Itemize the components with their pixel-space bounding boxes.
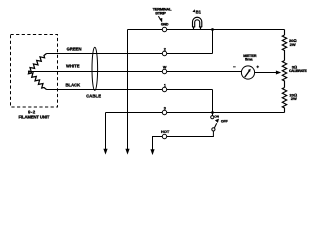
resistor R1 20ohm 2W bbox=[282, 30, 286, 61]
svg-text:ON: ON bbox=[214, 115, 219, 119]
lamp label B1 bbox=[192, 9, 195, 12]
node filament vertex bbox=[28, 70, 30, 72]
svg-text:2W: 2W bbox=[291, 96, 297, 101]
filament unit dashed enclosure bbox=[11, 35, 58, 108]
pot wiper arrowhead bbox=[276, 71, 281, 75]
wire lamp junction to GREEN row bbox=[212, 30, 214, 54]
svg-text:STRIP: STRIP bbox=[155, 10, 166, 15]
svg-text:3: 3 bbox=[164, 106, 166, 110]
resistor R3 20ohm 2W bbox=[282, 88, 286, 113]
arrow down at HOT drop bbox=[150, 149, 154, 155]
svg-text:B1: B1 bbox=[196, 9, 202, 14]
svg-text:GREEN: GREEN bbox=[67, 47, 82, 52]
wire row E (terminal 3 to resistor chain) bbox=[106, 112, 285, 114]
lamp B1 bbox=[192, 17, 202, 29]
switch arm with arrowhead bbox=[214, 123, 216, 128]
svg-text:2: 2 bbox=[164, 47, 166, 51]
svg-text:OFF: OFF bbox=[221, 119, 228, 123]
switch S1 pivot contact bbox=[212, 128, 215, 131]
svg-text:WHITE: WHITE bbox=[66, 64, 80, 69]
svg-text:1: 1 bbox=[164, 83, 166, 87]
potentiometer R2 3ohm CALIBRATE bbox=[282, 61, 286, 88]
arrow down at GND drop bbox=[125, 149, 129, 155]
svg-text:−: − bbox=[233, 64, 236, 69]
wire WHITE row bbox=[29, 71, 242, 73]
wire BLACK row bbox=[47, 89, 213, 91]
junction dot at lamp bbox=[211, 28, 214, 31]
svg-text:BLACK: BLACK bbox=[66, 83, 81, 88]
svg-text:+: + bbox=[256, 64, 259, 69]
filament element upper (zigzag) bbox=[29, 54, 47, 73]
svg-text:CABLE: CABLE bbox=[86, 93, 101, 98]
svg-text:5ma: 5ma bbox=[245, 57, 253, 62]
wire row E left drop bbox=[105, 113, 107, 150]
wire meter plus to pot wiper bbox=[255, 72, 277, 74]
meter M1 bbox=[241, 66, 254, 79]
svg-text:FILAMENT UNIT: FILAMENT UNIT bbox=[19, 114, 50, 119]
svg-text:CALIBRATE: CALIBRATE bbox=[289, 69, 307, 73]
svg-text:2W: 2W bbox=[290, 42, 296, 47]
svg-text:W: W bbox=[163, 65, 167, 69]
terminal strip leader arrow bbox=[158, 16, 160, 19]
wire HOT to left arrow bbox=[153, 137, 163, 150]
cable oval bbox=[92, 47, 98, 90]
wire BLACK row corner down to row E and switch bbox=[212, 90, 214, 116]
junction dot row E bbox=[211, 111, 214, 114]
wire HOT to switch pivot bbox=[167, 131, 214, 137]
wire GND drop to arrow bbox=[127, 30, 129, 150]
wire GND row bbox=[128, 29, 285, 31]
meter needle bbox=[245, 71, 250, 77]
filament element lower (zigzag) bbox=[28, 72, 46, 90]
arrow down at row E drop bbox=[103, 149, 107, 155]
svg-text:HOT: HOT bbox=[161, 129, 170, 134]
switch S1 ON contact bbox=[211, 116, 214, 119]
svg-text:GND: GND bbox=[161, 22, 169, 26]
wire GREEN row bbox=[47, 53, 213, 55]
